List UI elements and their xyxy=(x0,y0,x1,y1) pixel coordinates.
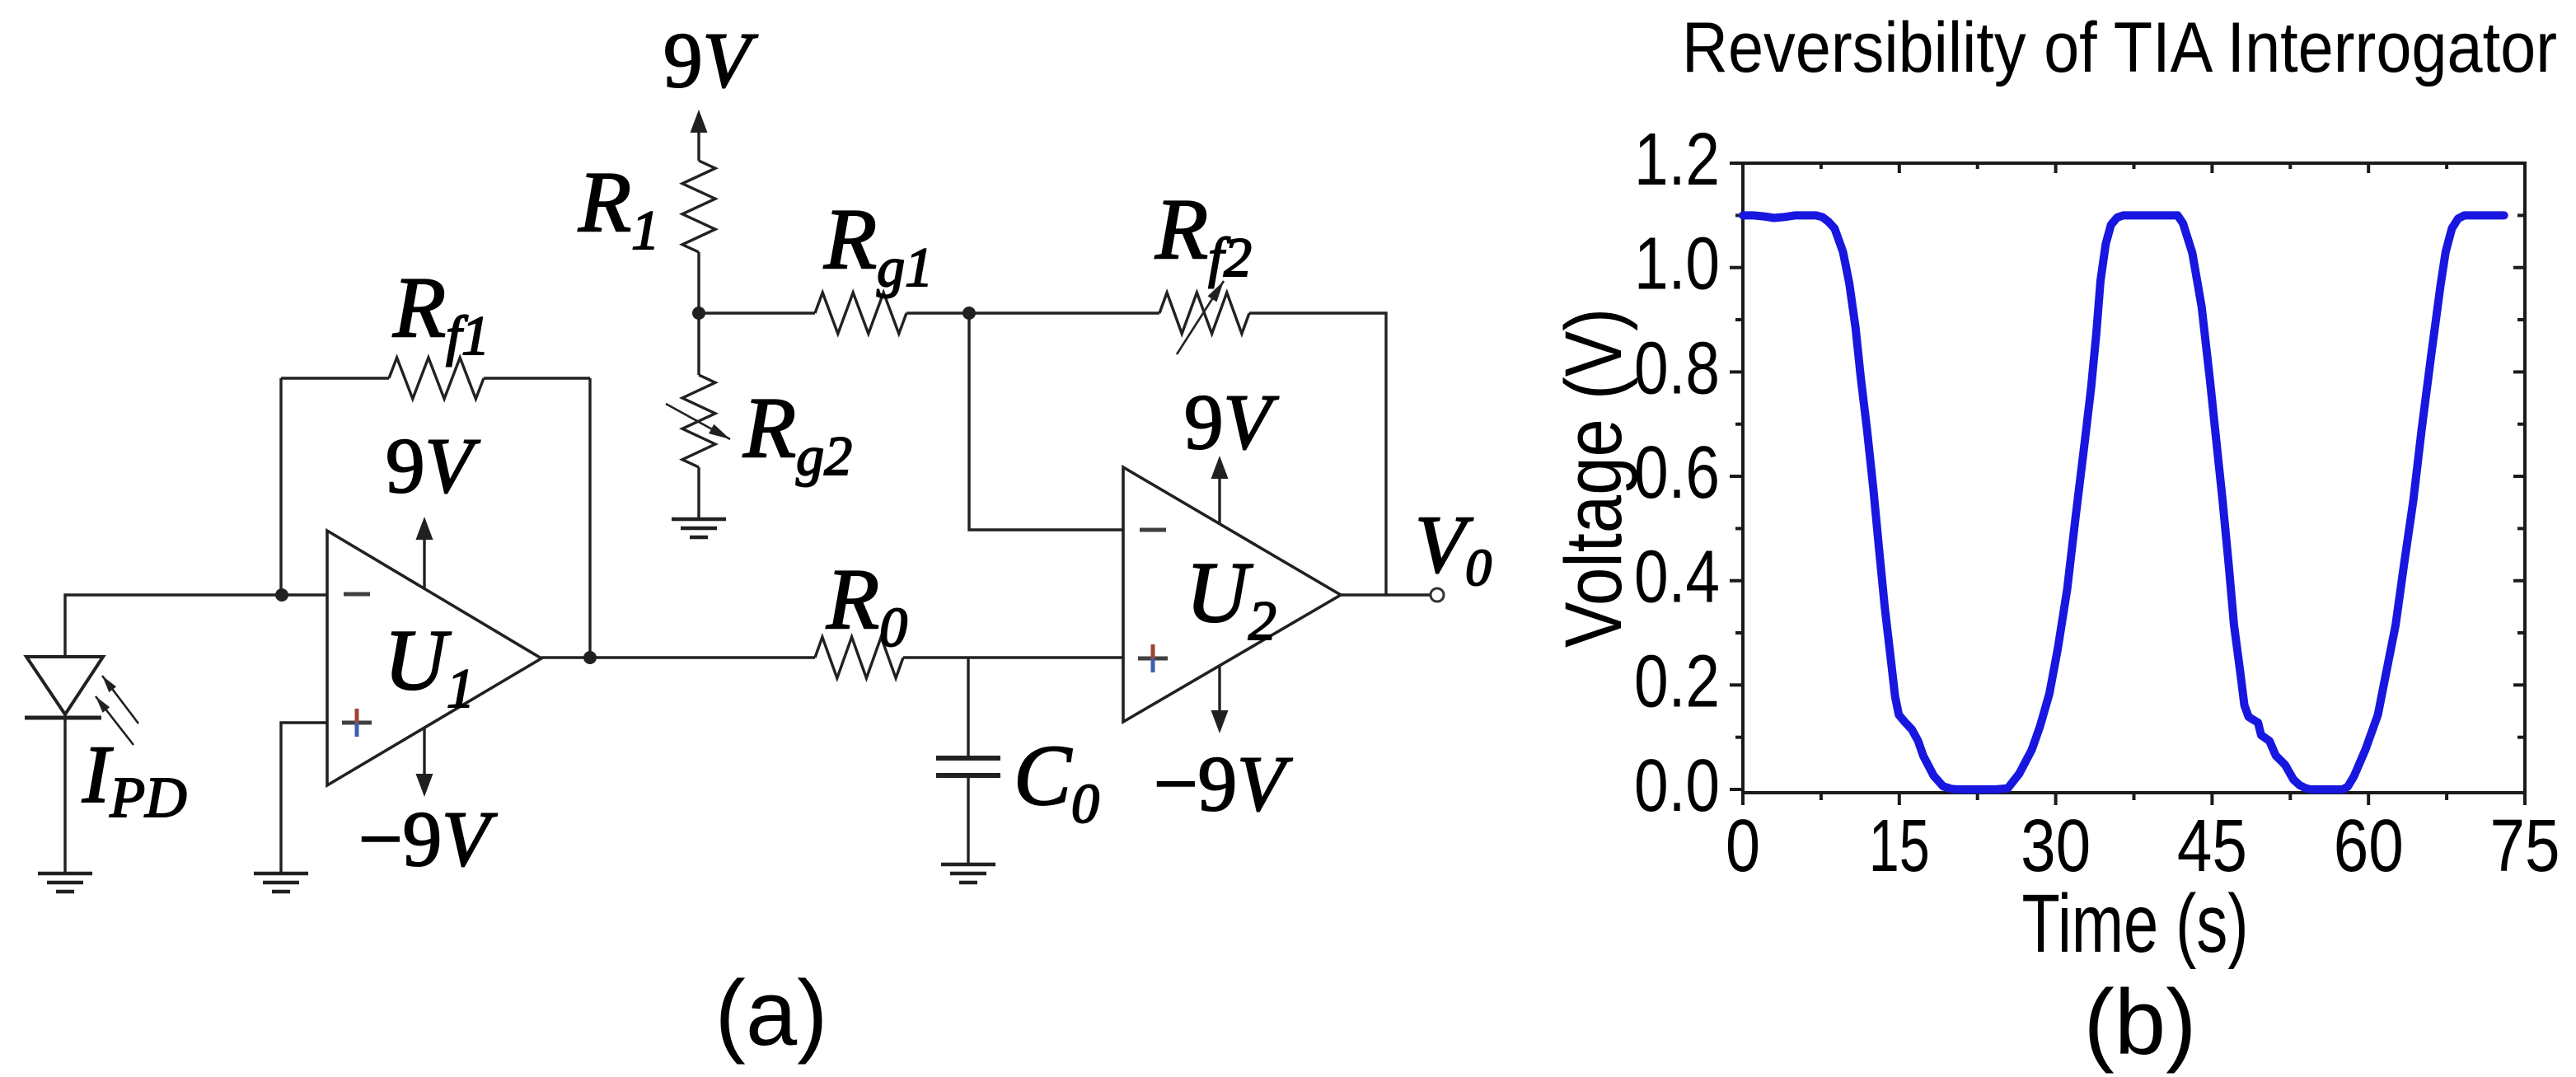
label V0 xyxy=(1415,499,1492,597)
label C0 xyxy=(1014,727,1099,835)
svg-text:1.0: 1.0 xyxy=(1634,223,1720,306)
label U1 xyxy=(384,611,475,719)
svg-text:45: 45 xyxy=(2177,805,2247,887)
label 9V (U2) xyxy=(1184,378,1280,466)
resistor Rg1 xyxy=(815,293,906,334)
svg-text:0: 0 xyxy=(1726,805,1760,887)
node A junction dot (inverting input U1) xyxy=(275,588,288,602)
label IPD xyxy=(82,728,187,830)
label 9V (U1) xyxy=(386,422,481,509)
chart axis ticks and tick labels xyxy=(1634,119,2560,887)
chart x axis label Time (s) xyxy=(2022,878,2249,970)
wire: photodiode anode to inverting node xyxy=(65,595,327,657)
op-amp U2 xyxy=(1123,467,1341,722)
label Rf2 xyxy=(1155,180,1252,288)
svg-text:0.6: 0.6 xyxy=(1634,432,1720,514)
capacitor C0 xyxy=(936,758,1000,864)
svg-text:9V: 9V xyxy=(386,422,481,509)
svg-text:75: 75 xyxy=(2490,805,2560,887)
svg-text:60: 60 xyxy=(2334,805,2404,887)
chart title xyxy=(1682,8,2557,87)
label -9V (U2) xyxy=(1154,740,1293,827)
wire: tap down to capacitor C0 xyxy=(967,658,969,756)
U1 positive supply arrow xyxy=(416,517,433,588)
label R0 xyxy=(826,550,907,658)
svg-text:−9V: −9V xyxy=(358,795,498,883)
output terminal circle xyxy=(1431,588,1444,602)
svg-text:0.2: 0.2 xyxy=(1634,640,1720,723)
svg-text:(b): (b) xyxy=(2084,971,2197,1074)
label R1 xyxy=(578,153,659,261)
label -9V (U1) xyxy=(358,795,498,883)
U2 positive supply arrow xyxy=(1211,456,1229,524)
svg-text:9V: 9V xyxy=(663,16,759,104)
wire: U2 output to terminal xyxy=(1341,593,1431,596)
chart data curve xyxy=(1743,215,2504,789)
wire: U1 non-inverting input from ground xyxy=(281,723,327,873)
svg-text:9V: 9V xyxy=(1184,378,1280,466)
svg-text:(a): (a) xyxy=(715,962,828,1065)
wire: Rg2 to ground xyxy=(697,467,700,519)
resistor R0 xyxy=(815,637,903,678)
label Rf1 xyxy=(392,259,489,367)
node C junction dot (R1/Rg1/Rg2) xyxy=(692,307,705,320)
chart plot box xyxy=(1743,163,2525,793)
label Rg1 xyxy=(823,190,933,298)
resistor Rf1 xyxy=(389,358,484,399)
label U2 xyxy=(1186,544,1276,652)
svg-text:−9V: −9V xyxy=(1154,740,1293,827)
ground (Rg2) xyxy=(672,519,726,537)
node B junction dot (U1 output) xyxy=(583,651,597,664)
U1 negative supply arrow xyxy=(416,728,433,797)
resistor Rf2 (variable) xyxy=(1159,281,1249,354)
chart y axis label Voltage (V) xyxy=(1548,308,1638,648)
photodiode D1 xyxy=(25,657,103,873)
9V supply arrow above R1 xyxy=(691,110,708,161)
wire: R1 bottom to Rg2 top xyxy=(697,252,700,375)
svg-text:Reversibility of TIA Interroga: Reversibility of TIA Interrogator xyxy=(1682,8,2557,87)
wire: feedback top right segment xyxy=(484,377,590,379)
wire: node D down to U2 inverting input xyxy=(969,313,1123,530)
light arrows into photodiode xyxy=(96,676,138,745)
label (b) xyxy=(2084,971,2197,1074)
wire: node C to Rg1 xyxy=(699,311,815,314)
wire: Rf2 right to feedback corner xyxy=(1249,313,1386,595)
svg-text:Time (s): Time (s) xyxy=(2022,878,2249,970)
svg-text:0.4: 0.4 xyxy=(1634,536,1720,619)
svg-text:30: 30 xyxy=(2021,805,2091,887)
svg-text:0.0: 0.0 xyxy=(1634,745,1720,827)
wire: R0 to U2 non-inverting input xyxy=(903,656,1123,658)
wire: feedback left vertical xyxy=(279,378,282,595)
node D junction dot (U2 inverting node) xyxy=(962,307,976,320)
ground (U1 non-inverting input) xyxy=(254,873,308,892)
ground (C0) xyxy=(941,864,995,883)
svg-text:1.2: 1.2 xyxy=(1634,119,1720,201)
resistor Rg2 (variable) xyxy=(666,375,730,467)
U2 negative supply arrow xyxy=(1211,666,1229,733)
svg-text:15: 15 xyxy=(1869,805,1930,887)
label 9V (R1 supply) xyxy=(663,16,759,104)
ground (photodiode) xyxy=(38,873,92,892)
svg-text:0.8: 0.8 xyxy=(1634,327,1720,410)
wire: feedback right vertical down to U1 output xyxy=(588,378,591,658)
svg-text:Voltage (V): Voltage (V) xyxy=(1548,308,1638,648)
label (a) xyxy=(715,962,828,1065)
wire: U1 output to R0 xyxy=(541,656,815,658)
resistor R1 xyxy=(682,161,715,252)
label Rg2 xyxy=(742,379,852,487)
op-amp U1 xyxy=(327,531,541,785)
wire: feedback top left segment xyxy=(281,377,389,379)
wire: Rg1 to Rf2 xyxy=(906,311,1159,314)
